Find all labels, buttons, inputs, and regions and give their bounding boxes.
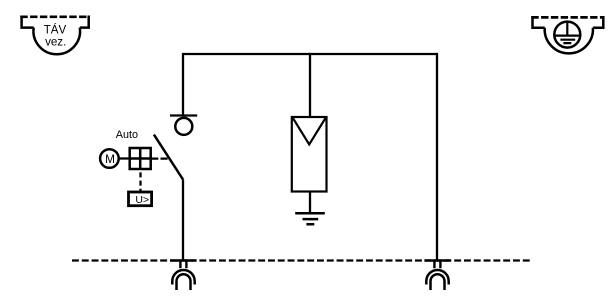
wire: arrester to ground <box>309 192 311 214</box>
connector fork right: top bar <box>424 259 450 261</box>
dashed link to U> relay <box>139 172 141 192</box>
connector fork left: outer staple <box>172 270 194 284</box>
wire: right branch <box>436 53 438 261</box>
wire: bus to surge arrester <box>309 53 311 117</box>
wire: motor to drive box <box>118 157 129 159</box>
wire: bus to disconnector <box>182 53 184 116</box>
connector fork left: center pins <box>180 261 186 269</box>
svg-text:vez.: vez. <box>45 35 66 48</box>
connector fork right: center pins <box>434 261 440 269</box>
relay box U> <box>129 192 152 206</box>
connector fork left: inner staple <box>177 274 191 290</box>
wire: disconnector to bottom busbar <box>182 180 184 262</box>
connector fork right: inner staple <box>431 274 445 290</box>
surge arrester <box>292 117 327 192</box>
connector fork right: outer staple <box>426 270 448 285</box>
svg-text:U>: U> <box>135 194 149 206</box>
disconnector fixed contact bar <box>170 114 197 116</box>
protective earth bars <box>556 22 581 43</box>
drive mechanism box <box>130 148 151 169</box>
disconnector blade <box>154 135 183 180</box>
ground <box>295 213 325 224</box>
wire: top bus <box>183 53 437 55</box>
mechanical link to blade (dashed) <box>151 157 168 159</box>
motor drive M <box>100 149 119 168</box>
svg-text:Auto: Auto <box>116 129 138 141</box>
symbol: protective earth cup <box>531 16 604 53</box>
busbar: bottom dashed line <box>72 259 530 261</box>
symbol: remote control cup (TAV vez.) <box>20 16 90 55</box>
disconnector contact circle <box>175 118 192 135</box>
connector fork left: top bar <box>170 259 196 261</box>
svg-text:M: M <box>105 152 115 166</box>
protective earth circle <box>554 22 580 48</box>
